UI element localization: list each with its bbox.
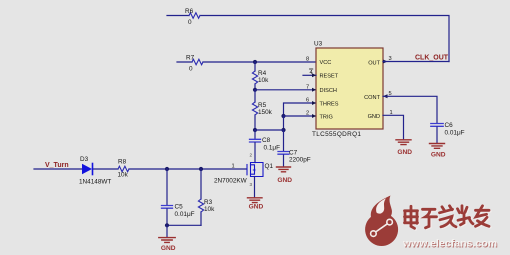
pin arrows left side <box>312 73 316 118</box>
wire R6 top net <box>167 16 449 62</box>
junction node bottom right <box>281 128 285 132</box>
svg-text:RESET: RESET <box>320 74 339 80</box>
junction DISCH node <box>253 88 257 92</box>
svg-text:THRES: THRES <box>320 101 339 107</box>
svg-text:GND: GND <box>249 203 264 210</box>
svg-text:C6: C6 <box>445 122 454 129</box>
wire DISCH <box>255 89 316 91</box>
svg-text:7: 7 <box>306 84 309 90</box>
svg-text:C7: C7 <box>289 150 298 157</box>
wire trig-down vertical <box>283 116 285 130</box>
svg-text:Q1: Q1 <box>265 163 274 170</box>
wire THRES L <box>284 103 317 116</box>
wire Q1 source to GND <box>254 177 256 197</box>
svg-text:0: 0 <box>188 19 192 26</box>
junction gnd rail <box>165 223 169 227</box>
svg-text:0.1μF: 0.1μF <box>264 145 281 152</box>
resistor R8 <box>118 166 129 172</box>
wire bottom gnd rail <box>167 224 201 226</box>
pin OUT arrow <box>383 60 388 64</box>
svg-text:0.01μF: 0.01μF <box>445 130 465 137</box>
pin RESET stub <box>303 74 316 76</box>
svg-text:8: 8 <box>306 57 309 63</box>
svg-text:R8: R8 <box>118 159 127 166</box>
svg-text:150k: 150k <box>258 109 273 116</box>
pin 4 overline <box>310 68 313 70</box>
svg-text:10k: 10k <box>258 77 269 84</box>
svg-text:GND: GND <box>277 177 292 184</box>
svg-text:U3: U3 <box>314 41 323 48</box>
op chip U3 TLC555QDRQ1 <box>312 41 383 139</box>
wire C6 to GND <box>436 127 438 143</box>
resistor R6 <box>189 13 200 19</box>
svg-text:V_Turn: V_Turn <box>45 162 69 169</box>
wire V_Turn net <box>34 168 247 170</box>
wire R3 vertical leads <box>200 169 202 225</box>
ground below C6 <box>430 144 445 149</box>
svg-text:D3: D3 <box>80 156 89 163</box>
watermark chinese text <box>406 207 491 230</box>
svg-text:TLC555QDRQ1: TLC555QDRQ1 <box>312 131 361 138</box>
wire R7 / VCC net <box>177 61 316 63</box>
resistor R7 <box>192 59 203 65</box>
junction R3 node <box>199 167 203 171</box>
svg-text:0.01μF: 0.01μF <box>175 211 195 218</box>
wire C8 top lead <box>254 130 256 139</box>
transistor Q1 2N7002KW <box>247 163 263 177</box>
wire bottom node horizontal <box>255 129 284 131</box>
svg-text:GND: GND <box>161 245 176 252</box>
svg-text:VCC: VCC <box>320 60 332 66</box>
resistor R3 <box>198 199 203 212</box>
svg-text:2N7002KW: 2N7002KW <box>214 178 248 185</box>
svg-text:CLK_OUT: CLK_OUT <box>415 55 449 62</box>
svg-text:GND: GND <box>368 114 380 120</box>
svg-text:10k: 10k <box>204 206 215 213</box>
capacitor C6 <box>431 124 443 127</box>
wire C5 top lead <box>166 169 168 205</box>
svg-text:DISCH: DISCH <box>320 88 337 94</box>
wire C7 top lead <box>283 130 285 151</box>
ground below C7 <box>277 167 291 172</box>
pin numbers <box>306 56 393 117</box>
svg-text:2: 2 <box>306 111 309 117</box>
svg-text:GND: GND <box>397 149 412 156</box>
svg-text:CONT: CONT <box>364 95 380 101</box>
svg-text:R4: R4 <box>258 70 267 77</box>
wire C7 to GND <box>283 155 285 166</box>
resistor R5 <box>252 102 257 115</box>
svg-text:www.elecfans.com: www.elecfans.com <box>402 238 497 249</box>
svg-text:OUT: OUT <box>368 60 380 66</box>
junction VCC node <box>253 60 257 64</box>
svg-text:C8: C8 <box>262 137 271 144</box>
svg-text:GND: GND <box>431 152 446 159</box>
svg-text:TRIG: TRIG <box>320 114 333 120</box>
wire TRIG <box>284 115 317 117</box>
wire C5 bottom lead <box>166 209 168 225</box>
wire R5 vertical <box>254 90 256 130</box>
capacitor C8 <box>250 139 261 142</box>
capacitor C5 <box>162 206 173 209</box>
ground below C5 <box>159 238 175 243</box>
svg-text:R6: R6 <box>185 8 194 15</box>
wire GND pin 1 <box>383 115 404 139</box>
svg-text:6: 6 <box>306 98 309 104</box>
svg-text:10k: 10k <box>118 172 129 179</box>
wire CONT net <box>383 96 437 123</box>
ground below pin1 <box>396 140 411 145</box>
svg-text:2200pF: 2200pF <box>289 157 311 164</box>
junction node bottom left <box>253 128 257 132</box>
svg-text:1N4148WT: 1N4148WT <box>79 179 111 186</box>
wire OUT to CLK_OUT <box>383 61 449 63</box>
ground below Q1 <box>248 198 263 203</box>
svg-text:R5: R5 <box>258 102 267 109</box>
watermark logo elecfans <box>365 196 398 246</box>
pin names <box>320 60 381 120</box>
junction TRIG node <box>281 114 285 118</box>
svg-text:R7: R7 <box>186 55 195 62</box>
wire C8 to Q1 drain <box>254 143 256 163</box>
diode D3 1N4148WT <box>82 164 93 175</box>
svg-text:C5: C5 <box>175 204 184 211</box>
wire R4 vertical <box>254 62 256 90</box>
capacitor C7 <box>278 152 289 155</box>
svg-text:1: 1 <box>232 164 235 170</box>
pin CONT arrow <box>383 94 388 98</box>
svg-text:R3: R3 <box>204 199 213 206</box>
junction C5 node <box>165 167 169 171</box>
svg-text:0: 0 <box>189 66 193 73</box>
wire to GND symbol <box>166 225 168 237</box>
resistor R4 <box>252 71 257 84</box>
